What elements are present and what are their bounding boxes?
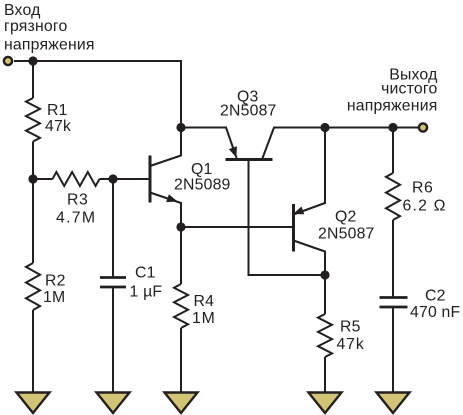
wire node C to R5 <box>324 275 326 314</box>
svg-text:6.2 Ω: 6.2 Ω <box>403 198 447 215</box>
ground R5 <box>309 393 342 414</box>
svg-text:Q2: Q2 <box>335 209 356 226</box>
svg-text:1M: 1M <box>43 289 65 306</box>
svg-text:R2: R2 <box>45 273 66 290</box>
svg-text:напряжения: напряжения <box>4 37 95 54</box>
svg-text:R5: R5 <box>340 319 361 336</box>
ground C2 <box>377 393 410 414</box>
transistor Q1 emitter arrow <box>166 194 177 202</box>
capacitor C1 <box>100 278 126 288</box>
capacitor C2 <box>380 298 408 308</box>
transistor Q1 emitter lead <box>150 193 181 228</box>
wire R3 to node B <box>100 178 114 180</box>
transistor Q3 collector lead <box>262 128 325 160</box>
resistor R2 <box>26 263 40 310</box>
wire C1 to ground <box>112 287 114 393</box>
wire node (181,128) to Q3 emitter <box>181 127 227 129</box>
ground R4 <box>165 393 198 414</box>
wire R1 bottom to node row <box>32 142 34 180</box>
junction node Q2 emitter / rail <box>320 123 329 132</box>
svg-text:чистого: чистого <box>381 81 437 98</box>
resistor R6 <box>386 173 400 220</box>
transistor Q3 emitter lead <box>226 128 237 159</box>
svg-text:2N5087: 2N5087 <box>220 103 277 120</box>
junction node Q1 collector <box>176 123 185 132</box>
transistor Q2 emitter lead <box>294 128 326 215</box>
transistor Q3 base bar <box>226 158 273 161</box>
svg-text:2N5089: 2N5089 <box>174 177 231 194</box>
resistor R4 <box>174 284 188 328</box>
svg-text:R1: R1 <box>47 102 68 119</box>
svg-text:R4: R4 <box>194 293 215 310</box>
output terminal <box>419 123 427 131</box>
wire R2 top <box>32 179 34 263</box>
svg-text:4.7M: 4.7M <box>56 210 96 227</box>
wire R4 to ground <box>180 328 182 393</box>
wire input top rail <box>14 61 181 128</box>
wire C2 to ground <box>392 307 394 393</box>
svg-text:Q1: Q1 <box>191 161 212 178</box>
ground C1 <box>97 393 130 414</box>
wire top rail to output <box>325 127 419 129</box>
resistor R1 <box>26 98 40 142</box>
svg-text:R3: R3 <box>67 192 88 209</box>
transistor Q3 emitter arrow <box>229 146 237 157</box>
transistor Q2 base bar <box>292 204 295 252</box>
wire Q3 base down and right to node C <box>249 160 326 276</box>
transistor Q2 collector lead <box>294 241 326 276</box>
wire R6 to C2 <box>392 220 394 297</box>
wire node B down to C1 <box>112 179 114 277</box>
svg-text:47k: 47k <box>45 118 71 135</box>
svg-text:1M: 1M <box>192 310 216 327</box>
wire node B to Q1 base <box>113 178 149 180</box>
svg-text:грязного: грязного <box>4 18 67 35</box>
svg-text:1 µF: 1 µF <box>130 284 163 301</box>
svg-text:47k: 47k <box>337 336 365 353</box>
wire R2 to ground <box>32 310 34 393</box>
svg-text:C1: C1 <box>135 265 156 282</box>
svg-text:напряжения: напряжения <box>347 98 438 115</box>
junction node Q2 collector/R5 <box>320 270 329 279</box>
wire input drop to R1 <box>32 61 34 98</box>
svg-text:2N5087: 2N5087 <box>318 226 375 243</box>
transistor Q1 base bar <box>149 156 152 203</box>
junction node at input rail <box>28 56 37 65</box>
input terminal <box>4 57 12 65</box>
junction node R6 / rail <box>388 123 397 132</box>
wire R6 top <box>392 128 394 174</box>
wire Q1 emitter node to Q2 base <box>181 226 293 228</box>
resistor R5 <box>318 314 332 357</box>
junction node R1/R2/R3 <box>28 174 37 183</box>
resistor R3 <box>53 172 100 186</box>
svg-text:Вход: Вход <box>4 2 41 19</box>
svg-text:470 nF: 470 nF <box>410 304 461 321</box>
junction node R3/C1/Q1 base <box>108 174 117 183</box>
transistor Q2 emitter arrow <box>293 207 304 215</box>
wire Q1 emitter node to R4 <box>180 227 182 284</box>
transistor Q1 collector lead <box>150 128 181 167</box>
svg-text:C2: C2 <box>425 288 446 305</box>
ground R2 <box>17 393 50 414</box>
junction node Q1 emitter/R4 <box>176 222 185 231</box>
wire R5 to ground <box>324 357 326 393</box>
svg-text:R6: R6 <box>412 180 433 197</box>
wire node to R3 <box>33 178 53 180</box>
